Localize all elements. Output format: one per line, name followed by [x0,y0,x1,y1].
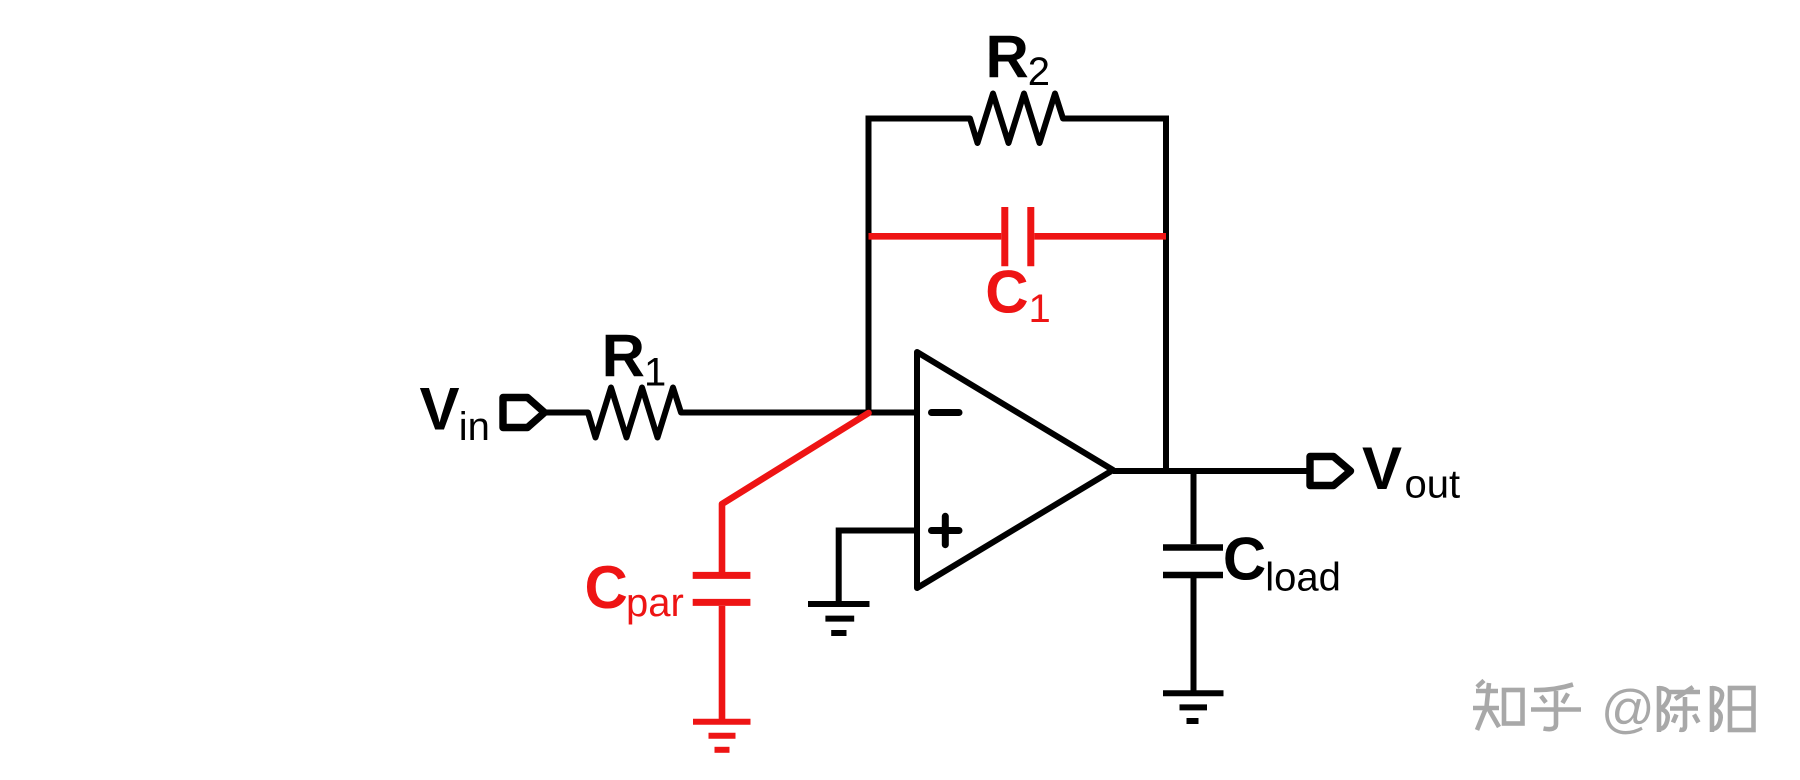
wire Vin to R1 [545,410,589,416]
svg-text:2: 2 [1028,50,1050,94]
陈 [1657,686,1662,732]
ground (below Cload) [1163,693,1224,721]
op-amp minus input symbol [932,409,960,416]
wire feedback right vertical [1063,119,1166,472]
wire op-amp + input to ground [839,531,917,602]
svg-text:1: 1 [1029,287,1051,331]
wire output node to Cload [1191,471,1197,544]
svg-text:V: V [420,376,460,443]
ground (op-amp + input) [808,604,870,633]
svg-text:C: C [985,259,1028,326]
op-amp U1 triangle [917,352,1113,588]
ground (red, below Cpar) [693,722,751,750]
wire R1 to op-amp inverting input [681,410,917,416]
capacitor Cpar (red, parasitic) wire from node [722,413,869,572]
svg-text:C: C [585,554,628,621]
terminal Vin [503,398,545,428]
wire op-amp output to Vout [1113,468,1310,474]
op-amp plus input symbol [932,516,960,544]
svg-text:V: V [1362,435,1402,502]
capacitor Cpar plates [693,575,751,719]
svg-text:@: @ [1601,680,1655,739]
wire feedback left vertical + top segment [869,119,971,414]
svg-text:1: 1 [644,351,666,395]
知 [1477,681,1484,688]
capacitor C1 (red, feedback) [869,207,1167,266]
svg-text:load: load [1265,556,1341,600]
阳 [1710,686,1715,732]
resistor R1 [588,388,681,438]
terminal Vout [1310,457,1351,486]
watermark 知乎 @陈阳 [1473,681,1581,731]
resistor R2 [970,94,1063,144]
svg-text:par: par [626,581,684,625]
svg-text:R: R [602,323,645,390]
乎 [1534,685,1573,691]
capacitor Cload [1163,548,1223,691]
svg-text:C: C [1223,525,1266,592]
svg-text:in: in [459,405,490,449]
svg-text:R: R [986,23,1029,90]
svg-text:out: out [1405,463,1461,507]
